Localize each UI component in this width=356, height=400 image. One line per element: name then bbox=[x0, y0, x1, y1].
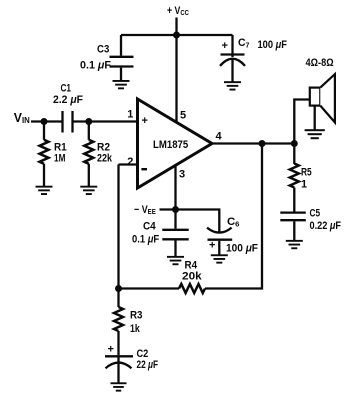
svg-text:2: 2 bbox=[127, 156, 133, 168]
svg-text:1k: 1k bbox=[130, 323, 140, 335]
svg-text:C4: C4 bbox=[143, 221, 156, 233]
svg-text:4: 4 bbox=[216, 131, 223, 143]
svg-text:100 μF: 100 μF bbox=[226, 243, 258, 255]
svg-text:+: + bbox=[142, 115, 148, 127]
svg-text:1: 1 bbox=[127, 109, 133, 121]
svg-text:0.22 μF: 0.22 μF bbox=[310, 220, 342, 232]
svg-text:22 μF: 22 μF bbox=[137, 359, 159, 371]
svg-text:+: + bbox=[222, 40, 228, 52]
svg-text:C5: C5 bbox=[310, 208, 321, 220]
svg-text:+: + bbox=[209, 240, 215, 252]
svg-text:5: 5 bbox=[180, 110, 186, 122]
svg-text:+: + bbox=[108, 344, 114, 356]
svg-text:1M: 1M bbox=[54, 153, 65, 165]
svg-text:1: 1 bbox=[301, 179, 307, 191]
svg-text:22k: 22k bbox=[97, 153, 113, 165]
svg-text:100 μF: 100 μF bbox=[258, 39, 288, 51]
svg-text:4Ω-8Ω: 4Ω-8Ω bbox=[306, 57, 334, 69]
svg-text:R3: R3 bbox=[130, 310, 143, 322]
svg-text:0.1 μF: 0.1 μF bbox=[80, 60, 111, 72]
svg-text:LM1875: LM1875 bbox=[153, 139, 188, 151]
svg-text:3: 3 bbox=[179, 169, 185, 181]
svg-text:C1: C1 bbox=[61, 83, 72, 95]
svg-text:C3: C3 bbox=[97, 44, 109, 56]
svg-text:0.1 μF: 0.1 μF bbox=[132, 234, 159, 246]
svg-text:20k: 20k bbox=[182, 271, 203, 283]
svg-text:2.2 μF: 2.2 μF bbox=[53, 94, 83, 106]
svg-text:R5: R5 bbox=[301, 167, 312, 179]
